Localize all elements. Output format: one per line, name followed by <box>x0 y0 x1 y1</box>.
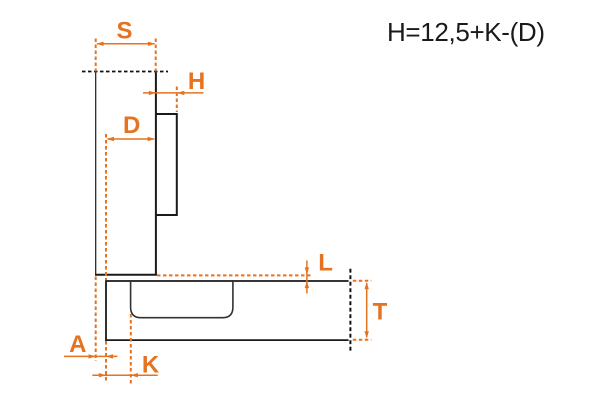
svg-text:S: S <box>116 18 132 45</box>
svg-text:A: A <box>69 331 86 358</box>
svg-text:T: T <box>373 299 388 326</box>
svg-text:D: D <box>123 112 140 139</box>
svg-text:L: L <box>318 250 333 277</box>
svg-text:H: H <box>188 68 205 95</box>
svg-text:K: K <box>142 352 160 379</box>
svg-text:H=12,5+K-(D): H=12,5+K-(D) <box>387 17 545 47</box>
